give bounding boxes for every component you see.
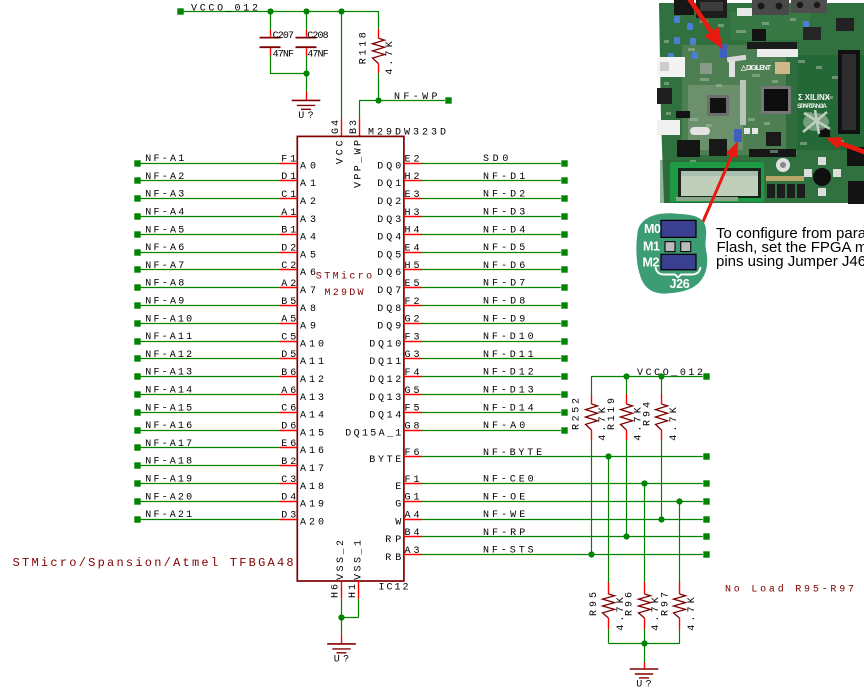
pin DQ0 (E2) — [377, 154, 422, 172]
resistor R119 4.7K — [607, 377, 645, 537]
svg-text:A0: A0 — [300, 161, 316, 172]
wire/net label NF-A2 — [134, 172, 279, 184]
svg-text:R96: R96 — [625, 592, 636, 616]
resistor R118 4.7K — [358, 11, 396, 100]
svg-text:Σ XILINX: Σ XILINX — [798, 93, 831, 102]
pin RB (A3) — [385, 546, 422, 564]
svg-text:DQ11: DQ11 — [369, 357, 401, 368]
pin DQ4 (H4) — [377, 226, 422, 244]
photo: top connectors — [674, 0, 854, 31]
wire/net label NF-RP — [422, 528, 710, 540]
svg-text:R118: R118 — [358, 32, 369, 64]
svg-text:E3: E3 — [405, 190, 420, 201]
svg-text:A20: A20 — [300, 517, 324, 528]
wire/net label NF-A13 — [134, 368, 279, 380]
pin A3 (A1) — [279, 208, 316, 226]
brace and J26 label — [656, 267, 701, 291]
pin name VPP_WP — [354, 140, 365, 188]
resistor R95 4.7K (no load) — [589, 457, 627, 644]
svg-text:B6: B6 — [281, 368, 296, 379]
svg-text:DQ7: DQ7 — [377, 286, 401, 297]
pin DQ5 (E4) — [377, 243, 422, 261]
photo: Spartan-3A FPGA board — [659, 3, 864, 203]
pin VSS_1 (H1) — [348, 581, 359, 599]
wire/net label NF-A14 — [134, 386, 279, 398]
pin VSS_2 (H6) — [331, 581, 342, 599]
wire VCCO_012 rail — [183, 11, 378, 13]
svg-text:H6: H6 — [331, 584, 342, 598]
svg-text:STMicro: STMicro — [316, 271, 372, 283]
junction R95 top — [605, 453, 611, 459]
svg-text:M2: M2 — [643, 256, 660, 270]
wire/net label NF-D6 — [422, 261, 568, 273]
svg-text:47NF: 47NF — [273, 50, 294, 61]
svg-text:C1: C1 — [281, 190, 296, 201]
svg-text:U?: U? — [636, 680, 651, 690]
svg-text:H2: H2 — [405, 172, 420, 183]
pin DQ11 (G3) — [369, 350, 422, 368]
wire/net label NF-A11 — [134, 332, 279, 345]
svg-text:A2: A2 — [281, 279, 296, 290]
pin W (A4) — [395, 510, 422, 528]
pin VCC (G4) — [331, 119, 342, 137]
wire/net label NF-OE — [422, 492, 710, 504]
svg-text:VCCO_012: VCCO_012 — [637, 368, 703, 379]
svg-text:W: W — [395, 517, 401, 528]
svg-text:A3: A3 — [300, 215, 316, 226]
svg-text:E5: E5 — [405, 279, 420, 290]
pin DQ3 (H3) — [377, 208, 422, 226]
junction R119 tap — [623, 373, 629, 379]
svg-text:A17: A17 — [300, 464, 324, 475]
svg-text:D5: D5 — [281, 350, 296, 361]
svg-text:C208: C208 — [307, 31, 328, 42]
pin name VSS_1 — [353, 540, 364, 580]
wire/net label NF-CE0 — [422, 475, 710, 487]
svg-text:NF-A17: NF-A17 — [145, 439, 192, 450]
svg-text:VSS_2: VSS_2 — [336, 540, 347, 580]
wire/net label NF-D12 — [422, 368, 568, 380]
svg-text:No Load R95-R97: No Load R95-R97 — [725, 584, 854, 596]
svg-text:DQ15A_1: DQ15A_1 — [345, 428, 401, 439]
svg-text:U?: U? — [298, 111, 313, 122]
wire/net label NF-A18 — [134, 457, 279, 469]
pin A10 (C5) — [279, 332, 324, 350]
svg-text:G3: G3 — [405, 350, 420, 361]
svg-text:R252: R252 — [572, 398, 583, 430]
svg-text:NF-A12: NF-A12 — [145, 350, 192, 361]
svg-text:NF-A3: NF-A3 — [145, 190, 184, 201]
capacitor C208 47NF — [296, 11, 329, 73]
flash memory U M29DW323D (IC12) body — [297, 127, 446, 593]
photo: misc components — [657, 16, 864, 204]
pin A4 (B1) — [279, 226, 316, 244]
wire/net label NF-D1 — [422, 172, 568, 184]
pin A12 (B6) — [279, 368, 324, 386]
wire/net label NF-A12 — [134, 350, 279, 362]
svg-text:A16: A16 — [300, 446, 324, 457]
svg-text:A9: A9 — [300, 322, 316, 333]
svg-text:A6: A6 — [300, 268, 316, 279]
pin DQ8 (F2) — [377, 297, 422, 315]
svg-text:R94: R94 — [642, 402, 653, 426]
wire to bottom ground — [644, 644, 646, 669]
pin A15 (D6) — [279, 421, 324, 439]
callout text — [716, 225, 864, 270]
pin DQ14 (F5) — [369, 404, 422, 422]
svg-text:VCCO_012: VCCO_012 — [191, 4, 258, 15]
svg-text:A10: A10 — [300, 339, 324, 350]
wire NF-WP to pin B3 — [359, 100, 378, 118]
pin DQ13 (G5) — [369, 386, 422, 404]
svg-text:NF-A5: NF-A5 — [145, 225, 184, 236]
svg-text:SPARTAN-3A: SPARTAN-3A — [797, 103, 827, 110]
junction C208 tap — [303, 8, 309, 14]
wire/net label NF-D5 — [422, 243, 568, 256]
pin name VSS_2 — [336, 540, 347, 580]
svg-text:A13: A13 — [300, 393, 324, 404]
wire/net label NF-A20 — [134, 492, 279, 504]
svg-text:A19: A19 — [300, 500, 324, 511]
svg-text:4.7K: 4.7K — [385, 41, 396, 75]
svg-text:SD0: SD0 — [483, 154, 508, 165]
svg-text:IC12: IC12 — [379, 583, 409, 594]
svg-text:DQ9: DQ9 — [377, 322, 401, 333]
svg-text:DQ4: DQ4 — [377, 233, 401, 244]
wire/net label NF-A3 — [134, 190, 279, 202]
junction VCC drop — [338, 8, 344, 14]
pin DQ9 (G2) — [377, 315, 422, 333]
pin A19 (D4) — [279, 493, 324, 511]
pin VPP_WP (B3) — [349, 119, 360, 137]
pin A9 (A5) — [279, 315, 316, 333]
svg-text:J26: J26 — [670, 277, 690, 291]
svg-text:VCC: VCC — [336, 140, 347, 164]
pin DQ6 (H5) — [377, 261, 422, 279]
svg-text:C207: C207 — [273, 31, 294, 42]
svg-text:NF-A4: NF-A4 — [145, 208, 184, 219]
wire/net label NF-WE — [422, 510, 710, 523]
svg-text:NF-RP: NF-RP — [483, 528, 525, 539]
svg-text:NF-D11: NF-D11 — [483, 350, 534, 361]
pin A20 (D3) — [279, 510, 324, 528]
wire/net label NF-A6 — [134, 243, 279, 256]
wire/net label NF-STS — [422, 546, 710, 558]
photo: LCD module — [670, 162, 764, 202]
pin A2 (C1) — [279, 190, 316, 208]
wire/net label NF-D13 — [422, 386, 568, 398]
arrow to Platform Flash jumper — [684, 0, 723, 49]
svg-text:NF-A2: NF-A2 — [145, 172, 184, 183]
svg-text:A8: A8 — [300, 304, 316, 315]
pin A13 (A6) — [279, 386, 324, 404]
svg-text:A4: A4 — [300, 233, 316, 244]
power net VCCO_012 (top-left) — [177, 4, 258, 15]
junction NF-WP node — [375, 97, 381, 103]
junction R94 tap — [658, 373, 664, 379]
callout blob J26 — [636, 213, 707, 293]
svg-text:DQ13: DQ13 — [369, 393, 401, 404]
wire/net label NF-D9 — [422, 314, 568, 326]
svg-text:△ DIGILENT: △ DIGILENT — [740, 65, 772, 72]
junction VSS node — [338, 614, 344, 620]
wire/net label NF-A7 — [134, 261, 279, 273]
svg-text:47NF: 47NF — [307, 50, 328, 61]
svg-text:E: E — [395, 482, 401, 493]
pin name VCC — [336, 140, 347, 164]
wire VSS tie — [342, 599, 359, 618]
svg-text:F4: F4 — [405, 368, 420, 379]
svg-text:NF-D6: NF-D6 — [483, 261, 525, 272]
pin DQ12 (F4) — [369, 368, 422, 386]
wire/net label NF-A10 — [134, 314, 279, 326]
wire/net label NF-BYTE — [422, 448, 710, 460]
ground U? (below chip) — [327, 644, 356, 666]
resistor R94 4.7K — [642, 377, 680, 520]
svg-text:NF-A9: NF-A9 — [145, 297, 184, 308]
pin A8 (B5) — [279, 297, 316, 315]
wire/net label NF-D11 — [422, 350, 568, 362]
junction R94 to row — [658, 516, 664, 522]
svg-text:DQ1: DQ1 — [377, 179, 401, 190]
pin BYTE (F6) — [369, 448, 422, 466]
jumper pins M1 — [643, 240, 691, 254]
wire/net label NF-A8 — [134, 279, 279, 291]
pin A11 (D5) — [279, 350, 324, 368]
wire/net label NF-A15 — [134, 403, 279, 415]
svg-text:DQ12: DQ12 — [369, 375, 401, 386]
svg-text:pins using Jumper J46: pins using Jumper J46 — [716, 253, 864, 270]
wire/net label NF-D7 — [422, 279, 568, 291]
note No Load R95-R97 — [725, 584, 854, 596]
pin A0 (F1) — [279, 154, 316, 172]
svg-text:NF-D1: NF-D1 — [483, 172, 525, 183]
resistor R252 4.7K — [572, 377, 610, 555]
photo: blue jumper J26 on board — [734, 129, 742, 142]
svg-text:G: G — [395, 500, 401, 511]
svg-text:B4: B4 — [405, 528, 420, 539]
junction no-load rail — [641, 640, 647, 646]
svg-text:RB: RB — [385, 553, 401, 564]
svg-text:E6: E6 — [281, 439, 296, 450]
svg-text:4.7K: 4.7K — [669, 407, 680, 441]
jumper block M0 — [644, 220, 696, 237]
note STMicro/Spansion/Atmel TFBGA48 — [13, 556, 294, 570]
wire/net label NF-D3 — [422, 208, 568, 220]
svg-text:M29DW: M29DW — [325, 288, 364, 299]
power net VCCO_012 (right) — [591, 368, 710, 380]
svg-text:R97: R97 — [660, 592, 671, 616]
svg-text:A2: A2 — [300, 197, 316, 208]
wire/net label NF-D14 — [422, 403, 568, 415]
svg-text:C2: C2 — [281, 261, 296, 272]
net label NF-WP — [378, 92, 452, 104]
svg-text:4.7K: 4.7K — [687, 597, 698, 631]
ground U? (top-left) — [292, 100, 321, 122]
svg-text:A7: A7 — [300, 286, 316, 297]
svg-text:DQ2: DQ2 — [377, 197, 401, 208]
resistor R96 4.7K (no load) — [625, 483, 663, 643]
svg-text:A11: A11 — [300, 357, 324, 368]
pin A5 (D2) — [279, 243, 316, 261]
svg-text:NF-A8: NF-A8 — [145, 279, 184, 290]
svg-text:A3: A3 — [405, 546, 420, 557]
svg-text:G4: G4 — [331, 120, 342, 134]
pin RP (B4) — [385, 528, 422, 546]
svg-text:DQ8: DQ8 — [377, 304, 401, 315]
svg-text:M0: M0 — [644, 222, 661, 236]
svg-text:H5: H5 — [405, 261, 420, 272]
svg-text:VSS_1: VSS_1 — [353, 540, 364, 580]
svg-text:A14: A14 — [300, 411, 324, 422]
wire/net label NF-D8 — [422, 297, 568, 309]
svg-text:A5: A5 — [300, 250, 316, 261]
wire/net label NF-A19 — [134, 475, 279, 487]
pin G (G1) — [395, 493, 422, 511]
svg-text:B2: B2 — [281, 457, 296, 468]
resistor R97 4.7K (no load) — [660, 501, 698, 643]
junction C207 tap — [267, 8, 273, 14]
pin A16 (E6) — [279, 439, 324, 457]
svg-text:A1: A1 — [300, 179, 316, 190]
svg-text:NF-A1: NF-A1 — [145, 154, 184, 165]
pin A6 (C2) — [279, 261, 316, 279]
wire/net label NF-A21 — [134, 510, 279, 523]
pin DQ10 (F3) — [369, 332, 422, 350]
wire/net label NF-A4 — [134, 208, 279, 220]
jumper block M2 — [643, 254, 697, 269]
svg-text:RP: RP — [385, 535, 401, 546]
wire cap commons — [270, 73, 306, 75]
wire/net label NF-D2 — [422, 190, 568, 202]
wire VSS to ground — [341, 617, 343, 644]
pin A1 (D1) — [279, 172, 316, 190]
svg-text:A12: A12 — [300, 375, 324, 386]
svg-text:DQ3: DQ3 — [377, 215, 401, 226]
pin A7 (A2) — [279, 279, 316, 297]
wire/net label NF-A9 — [134, 297, 279, 309]
arrow/callout leader to J26 jumper — [701, 141, 738, 225]
pin DQ2 (E3) — [377, 190, 422, 208]
pin DQ15A_1 (G8) — [345, 421, 422, 439]
svg-text:D1: D1 — [281, 172, 296, 183]
wire/net label NF-D10 — [422, 332, 568, 345]
pin DQ7 (E5) — [377, 279, 422, 297]
wire/net label SD0 — [422, 154, 568, 167]
wire no-load common rail — [609, 643, 680, 645]
svg-text:NF-A7: NF-A7 — [145, 261, 184, 272]
wire/net label NF-D4 — [422, 225, 568, 237]
pin A18 (C3) — [279, 475, 324, 493]
photo: silkscreen speckle — [664, 18, 844, 163]
svg-text:NF-WP: NF-WP — [394, 92, 438, 103]
svg-text:DQ6: DQ6 — [377, 268, 401, 279]
svg-text:STMicro/Spansion/Atmel TFBGA48: STMicro/Spansion/Atmel TFBGA48 — [13, 556, 294, 570]
svg-text:A15: A15 — [300, 428, 324, 439]
junction R119 to row — [623, 533, 629, 539]
pin A14 (C6) — [279, 404, 324, 422]
svg-text:DQ5: DQ5 — [377, 250, 401, 261]
pin A17 (B2) — [279, 457, 324, 475]
photo: Xilinx Spartan-3A logo — [797, 93, 831, 134]
wire/net label NF-A1 — [134, 154, 279, 167]
svg-text:VPP_WP: VPP_WP — [354, 140, 365, 188]
wire/net label NF-A5 — [134, 225, 279, 237]
wire/net label NF-A16 — [134, 421, 279, 434]
svg-text:NF-A6: NF-A6 — [145, 243, 184, 254]
svg-text:DQ10: DQ10 — [369, 339, 401, 350]
wire to ground — [306, 73, 308, 100]
svg-text:DQ0: DQ0 — [377, 161, 401, 172]
pin DQ1 (H2) — [377, 172, 422, 190]
svg-text:R95: R95 — [589, 592, 600, 616]
svg-text:F6: F6 — [405, 448, 420, 459]
arrow to mode chip (right) — [826, 137, 864, 155]
capacitor C207 47NF — [260, 11, 295, 73]
svg-text:A18: A18 — [300, 482, 324, 493]
photo: buttons and knob — [766, 157, 841, 198]
svg-text:M29DW323D: M29DW323D — [368, 127, 446, 138]
svg-text:BYTE: BYTE — [369, 455, 401, 466]
svg-text:NF-BYTE: NF-BYTE — [483, 448, 542, 459]
svg-text:M1: M1 — [643, 240, 660, 254]
pin E (F1) — [395, 475, 422, 493]
svg-text:H1: H1 — [348, 584, 359, 598]
svg-text:DQ14: DQ14 — [369, 411, 401, 422]
wire/net label NF-A0 — [422, 421, 568, 434]
junction R97 top — [676, 498, 682, 504]
junction R252 to row — [588, 551, 594, 557]
junction R96 top — [641, 480, 647, 486]
wire/net label NF-A17 — [134, 439, 279, 451]
svg-text:B3: B3 — [349, 120, 360, 134]
svg-text:U?: U? — [334, 655, 349, 666]
ground U? (bottom-right) — [630, 669, 659, 690]
junction cap ground node — [303, 70, 309, 76]
wire VCC to pin G4 — [341, 11, 343, 119]
